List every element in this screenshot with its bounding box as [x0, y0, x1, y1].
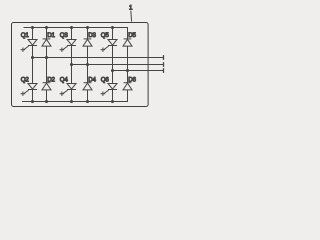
junction top bus / Q1	[31, 26, 34, 29]
wire Q6 cathode to bottom bus	[112, 90, 114, 102]
junction phase 2 / Q3 leg	[70, 63, 73, 66]
junction top bus / Q3	[70, 26, 73, 29]
thyristor Q6	[108, 84, 117, 90]
junction bottom bus / D2	[45, 100, 48, 103]
wire phase 1 node to Q2 anode	[32, 58, 34, 84]
AC phase 3 wire	[113, 70, 164, 72]
wire D4 anode to bottom bus	[87, 90, 89, 102]
AC phase 2 terminal tick	[163, 62, 165, 67]
wire D1 anode to phase 1 node	[46, 46, 48, 57]
junction phase 3 / Q5 leg	[111, 69, 114, 72]
wire phase 2 node to D4 cathode	[87, 65, 89, 83]
junction phase 1 / D1 leg	[45, 56, 48, 59]
thyristor Q5	[108, 40, 117, 46]
diode D1	[43, 38, 51, 40]
AC phase 2 wire	[72, 64, 164, 66]
wire Q3 cathode to phase 2 node	[71, 46, 73, 65]
thyristor Q2	[28, 84, 37, 90]
junction phase 1 / Q1 leg	[31, 56, 34, 59]
wire Q2 cathode to bottom bus	[32, 90, 34, 102]
svg-text:D2: D2	[47, 76, 55, 83]
diode D3	[84, 38, 92, 40]
junction top bus / D1	[45, 26, 48, 29]
junction phase 2 / D3 leg	[86, 63, 89, 66]
svg-text:D6: D6	[128, 76, 136, 83]
wire phase 3 node to D6 cathode	[127, 71, 129, 83]
svg-text:D4: D4	[88, 76, 96, 83]
wire D2 anode to bottom bus	[46, 90, 48, 102]
junction top bus / D3	[86, 26, 89, 29]
svg-text:Q3: Q3	[60, 32, 69, 39]
diode D2	[43, 82, 51, 84]
svg-text:Q2: Q2	[21, 76, 30, 83]
wire phase 1 node to D2 cathode	[46, 58, 48, 83]
diode D5	[124, 38, 132, 40]
junction bottom bus / Q4	[70, 100, 73, 103]
diode D4	[84, 82, 92, 84]
wire top bus to Q1 anode	[32, 28, 34, 40]
junction bottom bus / Q2	[31, 100, 34, 103]
AC phase 1 wire	[33, 57, 164, 59]
svg-text:Q4: Q4	[60, 76, 69, 83]
module outline box	[12, 23, 149, 107]
wire top bus to Q5 anode	[112, 28, 114, 40]
wire top bus to Q3 anode	[71, 28, 73, 40]
junction bottom bus / Q6	[111, 100, 114, 103]
thyristor Q3	[67, 40, 76, 46]
junction phase 3 / D5 leg	[126, 69, 129, 72]
DC negative bottom bus wire	[22, 101, 128, 103]
DC positive top bus wire	[24, 27, 129, 29]
svg-text:Q5: Q5	[101, 32, 110, 39]
wire top bus to D1 cathode	[46, 28, 48, 39]
thyristor Q4	[67, 84, 76, 90]
junction bottom bus / D4	[86, 100, 89, 103]
wire D6 anode to bottom bus	[127, 90, 129, 102]
AC phase 3 terminal tick	[163, 68, 165, 73]
wire Q4 cathode to bottom bus	[71, 90, 73, 102]
wire phase 2 node to Q4 anode	[71, 65, 73, 84]
wire Q1 cathode to phase 1 node	[32, 46, 34, 58]
svg-text:Q1: Q1	[21, 32, 30, 39]
wire phase 3 node to Q6 anode	[112, 71, 114, 84]
wire D3 anode to phase 2 node	[87, 46, 89, 64]
svg-text:D3: D3	[88, 32, 96, 39]
pin 1 leader line	[130, 11, 133, 22]
wire Q5 cathode to phase 3 node	[112, 46, 114, 71]
svg-text:Q6: Q6	[101, 76, 110, 83]
svg-text:D5: D5	[128, 32, 136, 39]
wire top bus to D3 cathode	[87, 28, 89, 39]
svg-text:D1: D1	[47, 32, 55, 39]
AC phase 1 terminal tick	[163, 55, 165, 60]
thyristor Q1	[28, 40, 37, 46]
wire D5 anode to phase 3 node	[127, 46, 129, 70]
junction top bus / Q5	[111, 26, 114, 29]
diode D6	[124, 82, 132, 84]
wire top bus to D5 cathode	[127, 28, 129, 39]
